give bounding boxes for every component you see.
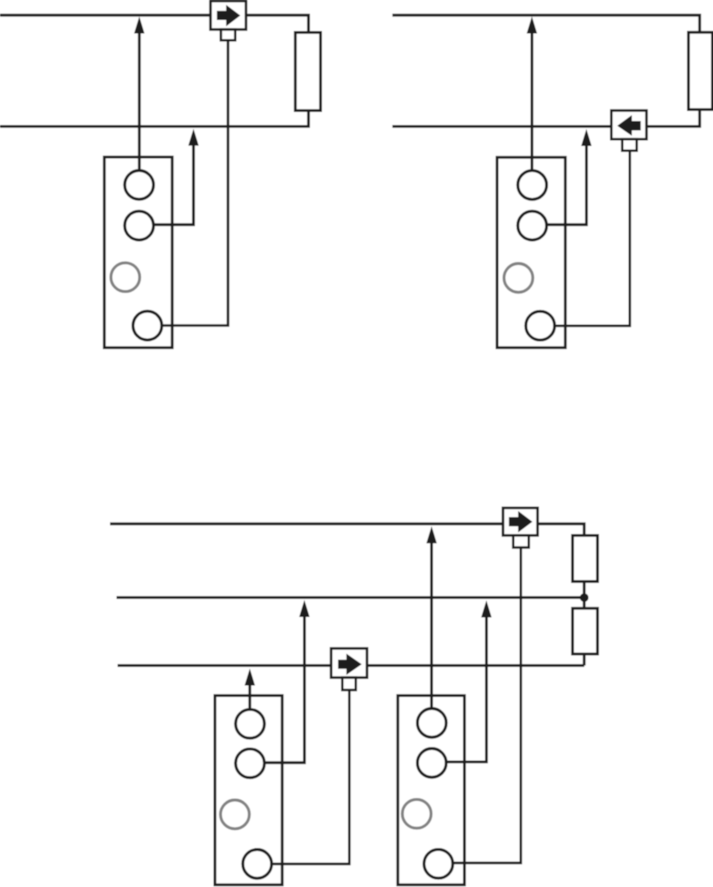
directional element P2 (left-arrow box on L2) (611, 111, 646, 140)
M1 pin 1 (125, 171, 154, 200)
resistor R3 (upper half of divider) (573, 535, 598, 581)
wire: P1 terminal to M1 pin 4 (147, 40, 228, 325)
wire: P2 terminal to M2 pin 4 (540, 151, 630, 326)
M3 pin 2 (236, 749, 265, 778)
arrow: M1 pin 2 to bus L2 (139, 129, 199, 225)
M2 pin 3 (gray) (504, 264, 533, 293)
meter M1 body (104, 157, 172, 348)
M2 pin 1 (518, 171, 547, 200)
wire: P3 terminal to M3 pin 4 (257, 690, 349, 864)
meter M4 body (bottom-right) (398, 696, 465, 885)
M1 pin 3 (gray) (111, 263, 140, 292)
terminal pad under P1 (221, 30, 235, 41)
M4 pin 4 (424, 849, 453, 878)
directional element P1 (right-arrow box on L1) (211, 1, 247, 30)
arrow: M3 pin 1 to bus B3 (245, 669, 255, 724)
directional element P4 (right-arrow box on B1) (503, 508, 538, 536)
wire: bus B3 (bottom line) (118, 664, 585, 667)
arrow: M4 pin 1 to bus B1 (426, 526, 436, 723)
arrow: M1 pin 1 to bus L1 (134, 17, 144, 185)
terminal pad under P3 (342, 678, 356, 690)
wire: P4 terminal to M4 pin 4 (438, 548, 521, 863)
M3 pin 1 (236, 709, 265, 738)
arrow: M2 pin 1 to bus L1 (527, 17, 537, 186)
M4 pin 3 (gray) (402, 799, 431, 828)
meter M2 body (497, 157, 565, 347)
M2 pin 4 (526, 311, 555, 340)
wire: bus B2 (middle line) (117, 596, 585, 599)
wire: bus B1 (top line of bottom group) with right link down (110, 524, 584, 666)
resistor R4 (lower half of divider) (573, 608, 598, 654)
M4 pin 1 (417, 709, 446, 738)
M4 pin 2 (417, 749, 446, 778)
M3 pin 4 (243, 850, 272, 879)
terminal pad under P4 (513, 535, 529, 547)
M2 pin 2 (518, 211, 547, 240)
wire: bus L1 top-left, right link and bus L2 (loop) (0, 15, 309, 126)
arrow: M3 pin 2 to bus B2 (250, 600, 310, 763)
directional element P3 (right-arrow box on B3) (331, 648, 367, 677)
resistor R2 (load across L1-L2) (688, 32, 712, 109)
resistor R1 (load across L1-L2) (295, 32, 320, 110)
arrow: M4 pin 2 to bus B2 (432, 600, 492, 762)
terminal pad under P2 (622, 139, 637, 151)
arrow: M2 pin 2 to bus L2 (532, 129, 591, 225)
M1 pin 4 (133, 311, 162, 340)
junction node N1 (dot between R3 and R4) (580, 593, 589, 602)
meter M3 body (bottom-left) (215, 696, 282, 885)
wire: bus L1 top-right, right link and bus L2 (loop) (392, 15, 699, 126)
M1 pin 2 (125, 211, 154, 240)
M3 pin 3 (gray) (221, 800, 250, 829)
